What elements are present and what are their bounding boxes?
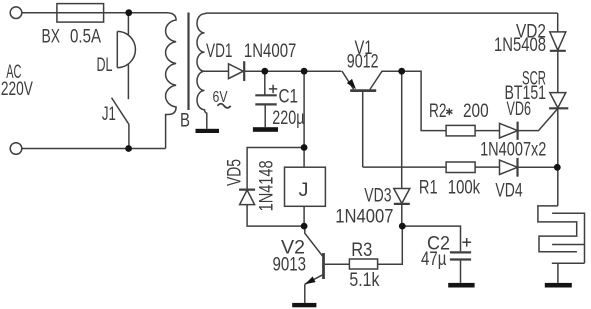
svg-text:BX: BX — [42, 27, 61, 48]
svg-text:VD3: VD3 — [364, 186, 391, 207]
svg-text:100k: 100k — [448, 178, 481, 199]
svg-text:9012: 9012 — [347, 52, 379, 73]
svg-text:R2: R2 — [429, 101, 447, 122]
svg-text:1N4007: 1N4007 — [244, 41, 297, 62]
svg-text:1N5408: 1N5408 — [494, 35, 546, 56]
svg-text:9013: 9013 — [273, 255, 307, 276]
svg-text:200: 200 — [463, 101, 489, 122]
svg-text:J1: J1 — [102, 104, 116, 125]
svg-text:J: J — [299, 180, 309, 201]
svg-text:B: B — [180, 111, 190, 132]
svg-text:R3: R3 — [351, 240, 372, 261]
svg-text:1N4007: 1N4007 — [335, 207, 393, 228]
svg-text:0.5A: 0.5A — [70, 27, 101, 48]
svg-text:VD6: VD6 — [507, 99, 532, 120]
svg-text:220µ: 220µ — [272, 108, 304, 129]
svg-text:1N4148: 1N4148 — [257, 160, 278, 211]
svg-text:1N4007x2: 1N4007x2 — [480, 140, 546, 161]
svg-text:5.1k: 5.1k — [349, 270, 379, 291]
svg-text:VD5: VD5 — [224, 159, 245, 186]
svg-text:6V: 6V — [213, 89, 228, 106]
svg-text:VD4: VD4 — [495, 181, 523, 202]
svg-text:220V: 220V — [1, 79, 33, 100]
svg-text:C1: C1 — [279, 86, 299, 107]
svg-text:R1: R1 — [419, 178, 438, 199]
svg-text:47µ: 47µ — [421, 249, 446, 270]
svg-text:DL: DL — [97, 55, 113, 76]
svg-text:VD1: VD1 — [206, 41, 233, 62]
